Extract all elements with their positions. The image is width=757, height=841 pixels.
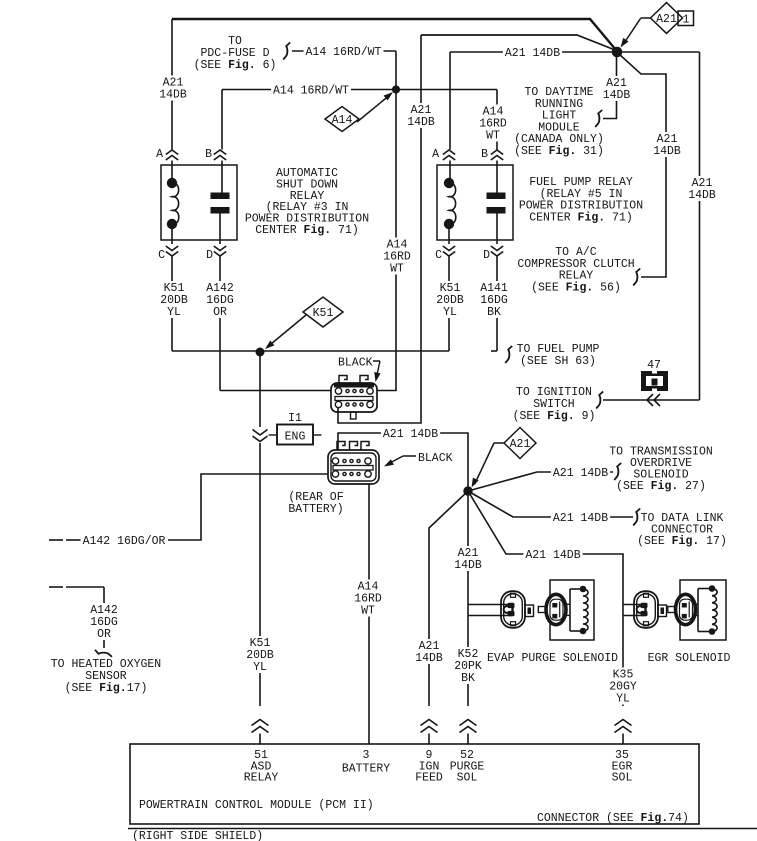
svg-text:(RIGHT SIDE SHIELD): (RIGHT SIDE SHIELD): [132, 830, 263, 841]
svg-text:A21: A21: [656, 13, 677, 26]
svg-text:A14 16RD/WT: A14 16RD/WT: [306, 46, 382, 59]
svg-text:(SEE Fig. 27): (SEE Fig. 27): [616, 480, 706, 493]
svg-text:BATTERY: BATTERY: [342, 763, 390, 776]
svg-text:(SEE Fig. 31): (SEE Fig. 31): [514, 145, 604, 158]
svg-text:B: B: [481, 148, 488, 161]
svg-text:EVAP PURGE SOLENOID: EVAP PURGE SOLENOID: [487, 652, 618, 665]
svg-text:(SEE Fig. 56): (SEE Fig. 56): [531, 281, 621, 294]
svg-text:14DB: 14DB: [415, 652, 443, 665]
svg-text:A21 14DB: A21 14DB: [553, 467, 608, 480]
svg-text:BLACK: BLACK: [418, 452, 453, 465]
svg-text:A142 16DG/OR: A142 16DG/OR: [83, 535, 166, 548]
svg-text:D: D: [483, 249, 490, 262]
svg-text:A21 14DB: A21 14DB: [505, 47, 560, 60]
svg-text:FEED: FEED: [415, 772, 443, 785]
svg-text:ENG: ENG: [285, 431, 306, 444]
svg-text:BATTERY): BATTERY): [288, 503, 343, 516]
svg-text:A21 14DB: A21 14DB: [383, 428, 438, 441]
svg-text:1: 1: [683, 14, 690, 27]
svg-text:YL: YL: [167, 306, 181, 319]
svg-text:A14 16RD/WT: A14 16RD/WT: [273, 85, 349, 98]
svg-text:47: 47: [647, 359, 661, 372]
svg-text:RELAY: RELAY: [244, 772, 279, 785]
svg-text:(SEE SH 63): (SEE SH 63): [520, 355, 596, 368]
svg-text:SOL: SOL: [612, 772, 633, 785]
svg-text:D: D: [206, 249, 213, 262]
svg-text:SOL: SOL: [457, 772, 478, 785]
svg-text:14DB: 14DB: [454, 559, 482, 572]
svg-text:A: A: [432, 148, 439, 161]
svg-text:WT: WT: [361, 605, 375, 618]
svg-text:I1: I1: [288, 412, 302, 425]
svg-text:WT: WT: [486, 130, 500, 143]
svg-text:BK: BK: [487, 306, 501, 319]
svg-text:YL: YL: [253, 661, 267, 674]
svg-text:CENTER Fig. 71): CENTER Fig. 71): [529, 211, 633, 224]
svg-text:A21 14DB: A21 14DB: [553, 512, 608, 525]
svg-text:(SEE Fig. 9): (SEE Fig. 9): [513, 410, 596, 423]
svg-text:BLACK: BLACK: [338, 357, 373, 370]
svg-text:A21 14DB: A21 14DB: [525, 549, 580, 562]
svg-text:CENTER Fig. 71): CENTER Fig. 71): [255, 224, 359, 237]
svg-text:WT: WT: [390, 263, 404, 276]
svg-text:K51: K51: [313, 307, 334, 320]
svg-text:YL: YL: [443, 306, 457, 319]
svg-text:14DB: 14DB: [688, 189, 716, 202]
svg-text:A14: A14: [332, 114, 353, 127]
svg-text:14DB: 14DB: [653, 145, 681, 158]
svg-text:POWERTRAIN CONTROL MODULE (PCM: POWERTRAIN CONTROL MODULE (PCM II): [139, 799, 374, 812]
svg-text:OR: OR: [97, 628, 111, 641]
svg-text:(SEE Fig.17): (SEE Fig.17): [65, 682, 148, 695]
svg-text:A21: A21: [510, 438, 531, 451]
svg-text:A: A: [156, 148, 163, 161]
svg-text:14DB: 14DB: [159, 89, 187, 102]
svg-text:14DB: 14DB: [407, 116, 435, 129]
svg-text:EGR SOLENOID: EGR SOLENOID: [648, 652, 731, 665]
svg-text:C: C: [435, 249, 442, 262]
svg-text:(SEE Fig. 6): (SEE Fig. 6): [194, 59, 277, 72]
svg-text:OR: OR: [213, 306, 227, 319]
svg-text:CONNECTOR (SEE Fig.74): CONNECTOR (SEE Fig.74): [537, 812, 689, 825]
svg-text:BK: BK: [461, 672, 475, 685]
svg-text:14DB: 14DB: [603, 89, 631, 102]
svg-text:B: B: [205, 148, 212, 161]
svg-text:YL: YL: [616, 693, 630, 706]
svg-text:3: 3: [363, 749, 370, 762]
svg-text:C: C: [158, 249, 165, 262]
svg-text:(SEE Fig. 17): (SEE Fig. 17): [637, 535, 727, 548]
